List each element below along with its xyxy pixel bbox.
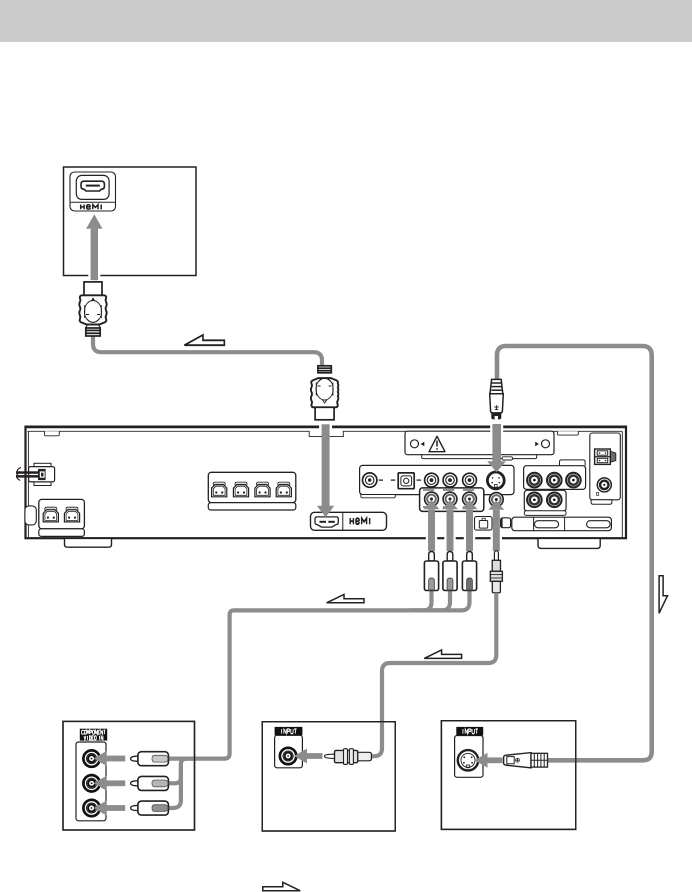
- component video in box: [63, 721, 195, 830]
- left speaker terminal group: [39, 499, 85, 536]
- signal flow arrow 1: [184, 335, 224, 345]
- arrow into s-video input jack: [475, 753, 503, 768]
- arrow into component jack Pr: [94, 801, 126, 816]
- small connector box bottom: [475, 517, 493, 531]
- audio in jacks top row: [425, 473, 439, 487]
- left foot: [64, 538, 111, 547]
- optical digital jack: [391, 473, 421, 489]
- dashes under jacks: [423, 490, 502, 507]
- video input jack: [280, 748, 296, 764]
- control jack right: [597, 478, 612, 495]
- component cable Pr branch: [168, 766, 181, 808]
- component cable green elbow: [410, 591, 432, 611]
- bottom vent assembly: [512, 517, 612, 531]
- s-video monitor out jack: [487, 472, 504, 489]
- arrow up from video plug: [488, 501, 504, 551]
- component video highlight box: [420, 488, 484, 512]
- TV box: [64, 167, 197, 276]
- top gray header bar: [0, 0, 692, 42]
- signal flow arrow down right: [659, 576, 667, 613]
- video out jack: [489, 493, 503, 507]
- arrow into component jack Pb: [94, 776, 126, 791]
- signal flow arrow 3: [424, 650, 461, 658]
- arrow up from red plug: [462, 500, 478, 551]
- small icon box bottom: [501, 518, 511, 528]
- s-video plug above receiver: [490, 379, 504, 419]
- video plug yellow: [490, 551, 502, 593]
- arrow down to s-video out: [487, 424, 506, 472]
- HDMI plug B (pointing down): [311, 366, 339, 420]
- warning label box: [405, 431, 554, 460]
- receiver chassis: [25, 427, 628, 539]
- s-video long cable: [497, 346, 652, 760]
- s-video cable plug: [504, 753, 548, 768]
- right rear section panel: [590, 433, 621, 504]
- component video out jacks bottom row: [425, 492, 439, 506]
- right foot: [538, 538, 600, 548]
- component plug green: [424, 552, 438, 591]
- component in jack Pb: [83, 775, 99, 791]
- signal flow arrow 2: [327, 594, 364, 602]
- video cable: [371, 594, 496, 756]
- right audio jacks: [527, 473, 542, 488]
- HDMI out port and label: [311, 512, 387, 530]
- HDMI port icon on TV: [70, 172, 116, 211]
- arrow down to HDMI out: [317, 421, 334, 517]
- component cable trunk: [167, 591, 470, 759]
- component in jack Y: [83, 750, 99, 766]
- component plug blue: [443, 552, 457, 591]
- component cable plug into Pr: [131, 801, 169, 815]
- AC power cord: [16, 463, 55, 485]
- s-video input jack: [458, 750, 478, 770]
- component cable blue elbow: [430, 591, 450, 611]
- arrow up from blue plug: [442, 500, 458, 551]
- component cable plug into Y: [131, 752, 169, 766]
- component in jack Pr: [83, 800, 99, 816]
- video input box: [262, 722, 395, 831]
- signal flow arrow bottom: [263, 882, 300, 890]
- component cable Pb branch: [168, 759, 197, 784]
- arrow into component jack Y: [94, 751, 126, 766]
- component cable plug into Pb: [131, 776, 169, 790]
- arrow up from green plug: [424, 500, 440, 551]
- s-video input box: [441, 721, 575, 830]
- video cable plug: [325, 749, 372, 765]
- coaxial digital jack: [363, 473, 384, 487]
- arrow into video input jack: [294, 749, 323, 764]
- right jack group boxes: [524, 460, 586, 516]
- right speaker wire block: [595, 449, 616, 464]
- main jack plate: [360, 465, 514, 497]
- HDMI plug A (pointing up): [79, 282, 106, 336]
- middle speaker terminal group: [208, 472, 295, 510]
- HDMI cable from plug A to plug B: [93, 334, 322, 368]
- box border overstrokes: [63, 721, 195, 830]
- component plug red: [462, 552, 476, 591]
- arrow up into TV HDMI port: [86, 214, 102, 280]
